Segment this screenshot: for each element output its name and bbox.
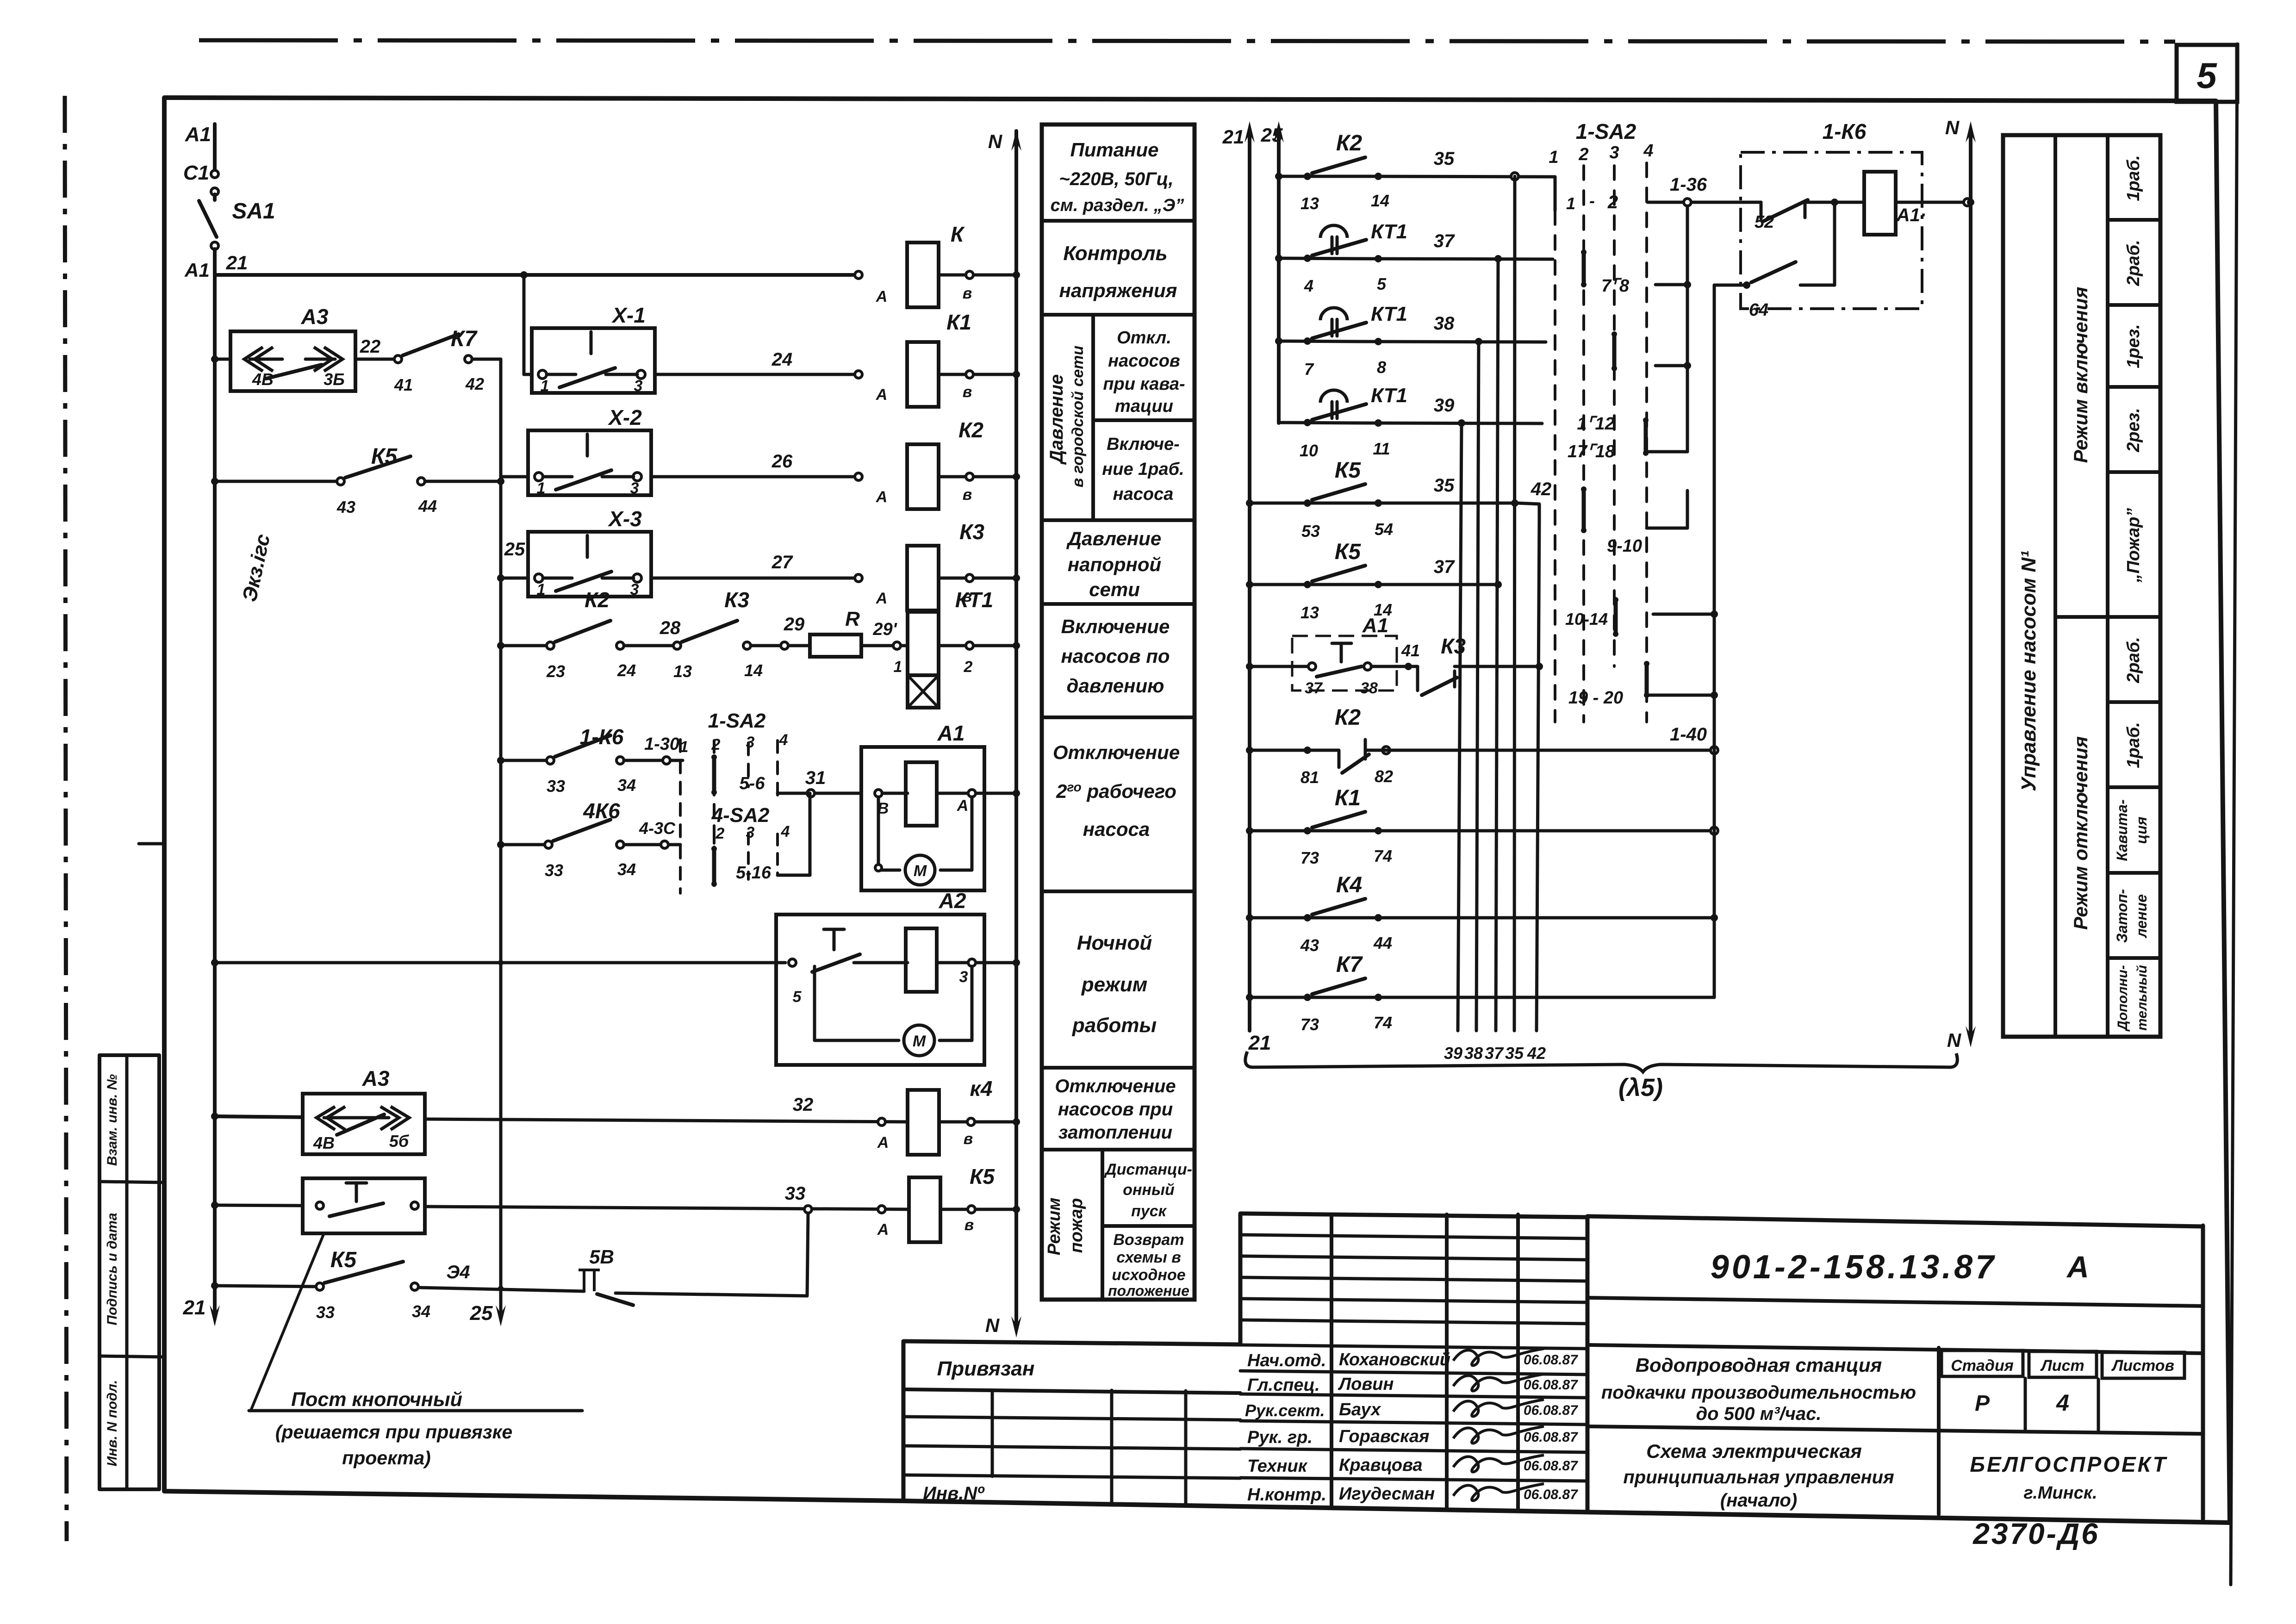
node 73 K7	[1304, 994, 1311, 1001]
svg-text:Включе-: Включе-	[1107, 435, 1180, 454]
A3 left chevron arrow	[244, 347, 273, 371]
A3-2 blade	[337, 1114, 384, 1135]
svg-text:А1: А1	[1362, 614, 1388, 637]
svg-text:1: 1	[1566, 194, 1575, 213]
svg-text:3: 3	[959, 968, 968, 986]
A2 inner wire to coil	[854, 961, 908, 964]
svg-text:9-10: 9-10	[1607, 536, 1642, 556]
hook to 42 vertical	[1517, 503, 1539, 518]
A1 coil out wire	[937, 792, 984, 795]
svg-text:4-3С: 4-3С	[639, 819, 676, 838]
svg-text:А: А	[876, 386, 888, 404]
svg-text:5-16: 5-16	[736, 863, 772, 883]
svg-text:Водопроводная станция: Водопроводная станция	[1636, 1354, 1882, 1376]
svg-text:ция: ция	[2133, 816, 2150, 844]
svg-text:Пост кнопочный: Пост кнопочный	[291, 1388, 462, 1411]
wire 37 row	[1365, 259, 1553, 259]
svg-text:К5: К5	[371, 444, 398, 469]
node 14 K2	[1375, 173, 1382, 180]
svg-text:„Пожар”: „Пожар”	[2124, 508, 2143, 583]
riser 64 vertical	[1713, 285, 1716, 997]
junction at 25-line X-3	[497, 574, 504, 582]
svg-text:2раб.: 2раб.	[2124, 637, 2143, 684]
wire line 25 vertical	[499, 359, 503, 1313]
svg-text:Р: Р	[1975, 1391, 1990, 1416]
approval col divider dates	[1516, 1214, 1520, 1509]
svg-text:Дополни-: Дополни-	[2115, 965, 2130, 1032]
svg-text:Стадия: Стадия	[1951, 1357, 2014, 1375]
svg-text:Включение: Включение	[1061, 616, 1170, 637]
function table outer box	[1042, 124, 1195, 1300]
svg-text:06.08.87: 06.08.87	[1524, 1487, 1578, 1502]
function table row line 1	[1042, 219, 1195, 223]
A1 button blade right	[1317, 666, 1362, 677]
node B of coil K1	[966, 371, 973, 378]
svg-text:Привязан: Привязан	[937, 1357, 1035, 1380]
tick col4 to common at 7-8	[1655, 283, 1687, 286]
approval name row 1 line	[1240, 1345, 1587, 1349]
svg-text:Режим: Режим	[1045, 1198, 1064, 1256]
wire K1 right	[1365, 829, 1714, 833]
rail N bottom arrow	[1011, 1316, 1021, 1338]
svg-text:затоплении: затоплении	[1058, 1122, 1172, 1143]
contact 1-К6	[547, 757, 554, 764]
KT1 flag box	[908, 675, 939, 708]
wire 34 to button 5В	[418, 1288, 584, 1291]
mode cell line 5	[2108, 700, 2160, 704]
wire K5 to 25-line	[425, 480, 501, 483]
K3 step down	[1411, 666, 1418, 691]
wire KT1 coil to N	[939, 644, 1016, 647]
svg-text:13: 13	[1300, 194, 1319, 213]
svg-text:1-SA2: 1-SA2	[708, 709, 766, 732]
node 82	[1382, 747, 1390, 754]
svg-text:при кава-: при кава-	[1103, 374, 1185, 394]
svg-text:4: 4	[1643, 141, 1653, 161]
Х-1 internal wire right	[606, 373, 637, 376]
wire A2 to N rail	[984, 961, 1016, 964]
svg-text:А3: А3	[362, 1066, 390, 1090]
svg-text:19 - 20: 19 - 20	[1568, 688, 1623, 708]
svg-text:8: 8	[1377, 358, 1386, 377]
Х-3 blade	[556, 572, 611, 591]
svg-text:работы: работы	[1072, 1014, 1157, 1037]
svg-text:Х-3: Х-3	[607, 507, 642, 531]
svg-text:25: 25	[1261, 124, 1283, 146]
Х-1 terminal 1	[538, 370, 547, 379]
svg-text:4: 4	[1304, 276, 1313, 295]
function table row line 6	[1042, 890, 1195, 893]
wire 22 A3 to K7	[355, 358, 398, 361]
junction coil K at N rail	[1013, 271, 1020, 279]
blade K7 right	[1312, 978, 1365, 994]
A1 entry terminal	[875, 790, 882, 797]
svg-text:21: 21	[226, 252, 248, 274]
approval name row 3 line	[1240, 1394, 1587, 1398]
approval empty row 2	[1240, 1256, 1587, 1260]
svg-text:к4: к4	[970, 1076, 993, 1101]
riser to K5 coil wire	[807, 1213, 808, 1296]
svg-text:3Б: 3Б	[324, 370, 345, 389]
row K1 wire	[1250, 829, 1365, 833]
title grid col 2	[1110, 1390, 1114, 1505]
wire 25-line to X-2	[501, 475, 528, 479]
svg-text:3: 3	[630, 581, 639, 598]
node 4-30 terminal	[661, 841, 668, 848]
A1 exit terminal	[968, 790, 976, 797]
wire 64 to riser	[1800, 284, 1835, 287]
svg-text:М: М	[913, 1033, 926, 1050]
row KT1-38 wire	[1279, 341, 1365, 342]
svg-text:Рук.секm.: Рук.секm.	[1245, 1401, 1325, 1420]
svg-text:Режим отключения: Режим отключения	[2070, 736, 2091, 930]
1-SA2 column2 contact segment	[712, 757, 716, 792]
svg-text:пуск: пуск	[1131, 1202, 1167, 1220]
svg-text:Подпись и дата: Подпись и дата	[105, 1213, 120, 1325]
svg-text:35: 35	[1434, 149, 1455, 169]
svg-text:SA1: SA1	[232, 199, 275, 224]
Х-2 blade	[556, 470, 611, 490]
terminal circle C1 lower	[211, 188, 218, 195]
svg-text:5В: 5В	[589, 1246, 614, 1268]
approval empty row 4	[1240, 1299, 1587, 1302]
row K5-37 wire	[1250, 583, 1365, 586]
value cell dividers	[2024, 1378, 2027, 1429]
junction rail25 row38	[1275, 337, 1282, 345]
svg-text:Отключение: Отключение	[1053, 741, 1180, 763]
KT1 flag cross	[908, 675, 939, 708]
svg-text:К3: К3	[724, 588, 749, 612]
mode cell line 6	[2108, 785, 2160, 789]
rail N top arrow	[1011, 130, 1021, 151]
svg-text:К3: К3	[959, 520, 984, 544]
A3-2 right chevron	[380, 1107, 409, 1130]
svg-text:34: 34	[617, 776, 636, 795]
sheet edge dash-dot line top	[199, 40, 2175, 42]
svg-text:КТ1: КТ1	[1371, 220, 1407, 243]
signature 2	[1453, 1374, 1544, 1391]
relay coil K2	[907, 444, 939, 509]
wire 31 from column 4	[778, 792, 861, 795]
svg-text:исходное: исходное	[1112, 1266, 1185, 1284]
svg-text:2раб.: 2раб.	[2124, 240, 2143, 286]
svg-text:06.08.87: 06.08.87	[1524, 1403, 1578, 1418]
function table sub divider fire	[1101, 1150, 1104, 1300]
header cell Лист box	[2029, 1351, 2097, 1377]
junction at 35 vertical	[1511, 499, 1518, 507]
svg-text:N: N	[1945, 117, 1960, 138]
svg-text:901-2-158.13.87: 901-2-158.13.87	[1711, 1249, 1997, 1286]
junction 52-64	[1831, 199, 1838, 206]
approval table top	[1240, 1213, 1587, 1217]
nc bar K2-81	[1364, 740, 1367, 759]
svg-text:37: 37	[1305, 679, 1323, 697]
svg-text:(λ5): (λ5)	[1618, 1074, 1663, 1101]
svg-text:5-6: 5-6	[740, 774, 765, 793]
svg-text:КТ1: КТ1	[955, 588, 994, 612]
contact K5 left ladder	[337, 478, 344, 485]
svg-text:4К6: 4К6	[583, 799, 620, 823]
svg-text:Игудесман: Игудесман	[1339, 1484, 1435, 1504]
svg-text:2: 2	[1607, 192, 1618, 212]
A3-2 internal wire	[324, 1116, 389, 1120]
svg-text:4-SA2: 4-SA2	[711, 804, 770, 827]
svg-text:73: 73	[1300, 1015, 1319, 1034]
svg-text:3: 3	[746, 824, 755, 841]
junction 10-14 at riser	[1711, 610, 1718, 618]
mode table col divider 1	[2053, 135, 2057, 1037]
node 8	[1375, 338, 1382, 345]
page number box	[2177, 45, 2237, 102]
wire K5-37 right	[1365, 583, 1500, 586]
A3 contact blade	[266, 365, 322, 379]
svg-text:А3: А3	[301, 305, 329, 329]
svg-text:54: 54	[1375, 520, 1393, 539]
svg-text:38: 38	[1360, 679, 1378, 697]
junction rail at A3-2 row	[211, 1113, 218, 1120]
junction bus to X-1 branch	[520, 271, 528, 279]
bus wire 21 to coil K	[215, 273, 861, 277]
svg-text:насосов: насосов	[1108, 351, 1180, 371]
svg-text:А1: А1	[937, 721, 965, 745]
svg-text:тации: тации	[1115, 397, 1173, 416]
button station box	[303, 1178, 425, 1233]
junction tick 7-8	[1684, 281, 1691, 288]
A2 button bar	[824, 928, 844, 931]
wire rail to button box	[215, 1205, 303, 1206]
contact 52 tick	[1760, 202, 1763, 218]
signature 1	[1453, 1349, 1544, 1365]
contact K3 in KT1 row	[673, 642, 681, 649]
mode table middle split	[2055, 615, 2160, 619]
svg-text:25: 25	[470, 1302, 493, 1325]
wire 1-40 row	[1365, 749, 1714, 752]
svg-text:1: 1	[537, 581, 546, 598]
switch 1-SA2 right column 3 dash	[1613, 166, 1616, 666]
svg-text:1⌜12: 1⌜12	[1577, 414, 1614, 434]
tick col4 to common bottom	[1648, 450, 1687, 454]
svg-text:64: 64	[1749, 300, 1768, 320]
svg-text:г.Минск.: г.Минск.	[2023, 1483, 2097, 1503]
vertical wire 35	[1514, 176, 1515, 1031]
svg-text:К7: К7	[451, 327, 478, 351]
svg-text:34: 34	[412, 1302, 430, 1321]
svg-text:2: 2	[1578, 145, 1588, 164]
node 5	[1375, 255, 1382, 262]
svg-text:давлению: давлению	[1067, 675, 1164, 697]
junction rail at A2 row	[211, 959, 218, 966]
svg-text:К: К	[951, 222, 965, 246]
approval name row 6 line	[1240, 1478, 1587, 1481]
rail 25 top arrow	[1274, 121, 1284, 143]
junction 35-vertical top	[1511, 173, 1518, 180]
relay coil K1	[907, 342, 939, 407]
wire rail to A2	[215, 961, 785, 964]
svg-text:А1: А1	[185, 123, 211, 146]
wire 33 button to K5 coil	[425, 1207, 909, 1209]
svg-text:Э4: Э4	[447, 1262, 470, 1282]
wire coil K to N	[939, 274, 1016, 277]
node B of coil K	[966, 271, 973, 279]
junction rail21 A1 row	[1246, 663, 1253, 670]
node 73 K1	[1304, 827, 1311, 834]
contact K5 bottom	[316, 1283, 324, 1290]
svg-text:2: 2	[711, 736, 721, 753]
svg-text:39: 39	[1444, 1044, 1462, 1063]
vertical wire 37	[1496, 259, 1498, 1031]
junction A2 at N rail	[1013, 959, 1020, 966]
contact segment col4 17-18	[1644, 420, 1648, 453]
wire 35 row	[1365, 176, 1555, 177]
junction K1 at N rail	[1013, 371, 1020, 378]
svg-text:26: 26	[772, 451, 793, 472]
approval name row 4 line	[1240, 1421, 1587, 1425]
switch 1-SA2 right column 1 dash	[1554, 211, 1556, 722]
svg-text:2370-Д6: 2370-Д6	[1972, 1517, 2100, 1550]
A2 button blade	[812, 954, 860, 972]
wire coil K3 to N	[939, 577, 1016, 580]
svg-text:А1: А1	[184, 259, 210, 281]
node 13 second	[1304, 581, 1311, 588]
svg-text:41: 41	[1401, 641, 1420, 660]
tick col4 to riser at 10-14	[1653, 613, 1714, 616]
svg-text:К3: К3	[1441, 634, 1466, 658]
A2 motor	[904, 1025, 934, 1056]
junction at 37 vertical	[1494, 581, 1502, 588]
blade K5 row2	[1312, 566, 1365, 581]
svg-text:7⌜8: 7⌜8	[1601, 276, 1630, 296]
blade KT1 row2	[1312, 323, 1366, 338]
K2-81 step down	[1307, 750, 1339, 767]
junction 39-vertical top	[1458, 419, 1465, 427]
svg-text:К5: К5	[1335, 458, 1362, 483]
A1 motor	[905, 855, 935, 885]
svg-text:А: А	[876, 288, 888, 305]
unit A1 dashed box right ladder	[1292, 636, 1397, 691]
svg-text:Затоп-: Затоп-	[2114, 889, 2130, 943]
junction at 42 vertical row1440	[1536, 663, 1543, 670]
mode cell line 2	[2108, 303, 2160, 307]
junction K4 at 64 riser	[1711, 914, 1718, 921]
svg-text:17⌜18: 17⌜18	[1568, 442, 1615, 461]
svg-text:3: 3	[634, 377, 643, 395]
node 1-36 terminal	[1684, 199, 1691, 206]
coil А1 right ladder	[1864, 172, 1896, 235]
wire R to KT1 coil	[861, 644, 908, 647]
wire between K2 and K3 contacts	[624, 644, 677, 647]
tick col4 9-10	[1647, 527, 1687, 530]
svg-text:сети: сети	[1089, 579, 1140, 600]
svg-text:проекта): проекта)	[342, 1447, 431, 1468]
rail N left ladder	[1014, 131, 1018, 1325]
node B of coil K5	[968, 1206, 975, 1213]
svg-text:схемы в: схемы в	[1116, 1249, 1181, 1266]
svg-text:39: 39	[1434, 395, 1455, 416]
wire K7 right	[1365, 996, 1714, 999]
mode table col divider 2	[2106, 135, 2109, 1037]
svg-text:33: 33	[545, 861, 563, 880]
svg-text:13: 13	[1300, 603, 1319, 622]
junction rail at button row	[211, 1201, 218, 1209]
junction K1 at 64 riser	[1711, 827, 1718, 834]
svg-text:А1·: А1·	[1896, 205, 1926, 225]
approval empty row 1	[1240, 1235, 1587, 1238]
svg-text:до 500 м³/час.: до 500 м³/час.	[1696, 1404, 1821, 1424]
title right top line	[1587, 1216, 2203, 1226]
svg-text:Контроль: Контроль	[1063, 242, 1167, 265]
svg-text:Ловин: Ловин	[1338, 1375, 1394, 1394]
svg-text:-: -	[1589, 191, 1595, 210]
svg-text:2: 2	[716, 825, 725, 842]
svg-text:Инв. N подл.: Инв. N подл.	[105, 1380, 120, 1467]
wire 25-line to X-3	[501, 577, 528, 580]
node 4	[1304, 255, 1311, 262]
wire rail to A3 box	[215, 358, 230, 361]
junction KT1 at N rail	[1013, 642, 1020, 649]
A2 coil	[906, 928, 937, 992]
function table row line 3	[1042, 518, 1195, 522]
drawing frame	[164, 98, 2230, 1523]
function table row line 4	[1042, 602, 1195, 606]
contact 64 row wire	[1714, 284, 1747, 287]
wire 25-line to 1-K6 contact	[501, 759, 550, 762]
svg-text:4: 4	[2056, 1390, 2069, 1416]
title block left outer	[903, 1214, 1240, 1501]
svg-text:41: 41	[394, 375, 413, 394]
KT1 time symbol 2	[1320, 308, 1347, 320]
svg-text:28: 28	[660, 618, 681, 638]
svg-text:1рез.: 1рез.	[2124, 324, 2143, 368]
wire K5-35 row right	[1365, 502, 1517, 505]
svg-text:4: 4	[781, 823, 790, 840]
A2 button stem	[833, 929, 836, 950]
Х-2 internal wire right	[602, 475, 634, 479]
switch 4-SA2 column 2 dash	[713, 832, 716, 886]
svg-text:32: 32	[793, 1095, 814, 1115]
node A of coil K2	[855, 473, 862, 480]
wire 27 X-3 to K3	[651, 577, 861, 580]
wire C1 to SA1	[213, 194, 217, 200]
title grid col 1	[991, 1390, 994, 1476]
connector box A3 second	[303, 1094, 425, 1154]
contact K2 in KT1 row	[547, 642, 554, 649]
svg-text:1-36: 1-36	[1670, 174, 1707, 195]
wire 25-line to 4-K6 contact	[501, 843, 548, 846]
node 41	[1405, 663, 1412, 670]
svg-text:38: 38	[1434, 313, 1455, 334]
svg-text:23: 23	[546, 662, 565, 681]
row K2-81 wire	[1250, 749, 1312, 752]
wire rail to K5-2 contact	[215, 1286, 320, 1287]
svg-text:5: 5	[1377, 274, 1387, 293]
svg-text:подкачки производительностью: подкачки производительностью	[1601, 1382, 1916, 1403]
svg-text:11: 11	[1373, 439, 1390, 458]
svg-text:1-30: 1-30	[644, 734, 679, 754]
junction K3 at N rail	[1013, 574, 1020, 582]
svg-text:Гл.спец.: Гл.спец.	[1247, 1375, 1320, 1395]
mode cell line 8	[2108, 956, 2160, 960]
svg-text:А: А	[2066, 1250, 2089, 1284]
mode cell line 1	[2108, 218, 2160, 222]
svg-text:Давление: Давление	[1066, 528, 1161, 549]
function table row line 8	[1042, 1148, 1195, 1151]
svg-text:24: 24	[617, 661, 636, 680]
svg-text:24: 24	[772, 349, 793, 370]
node 53	[1304, 499, 1311, 507]
svg-text:1: 1	[894, 658, 902, 676]
svg-text:2: 2	[964, 658, 973, 676]
left stamp label strip divider	[125, 1055, 129, 1489]
